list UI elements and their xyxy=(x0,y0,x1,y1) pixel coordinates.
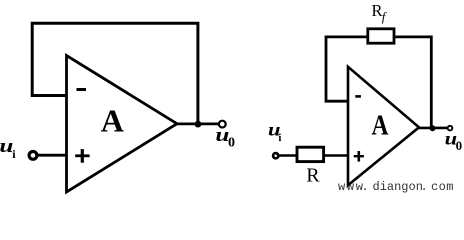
svg-text:R: R xyxy=(306,165,320,187)
svg-text:www.diangon.com: www.diangon.com xyxy=(338,180,454,194)
svg-text:A: A xyxy=(372,110,389,142)
svg-text:A: A xyxy=(101,103,124,139)
svg-text:0: 0 xyxy=(228,135,235,150)
svg-text:0: 0 xyxy=(456,138,463,153)
svg-text:i: i xyxy=(278,132,281,144)
